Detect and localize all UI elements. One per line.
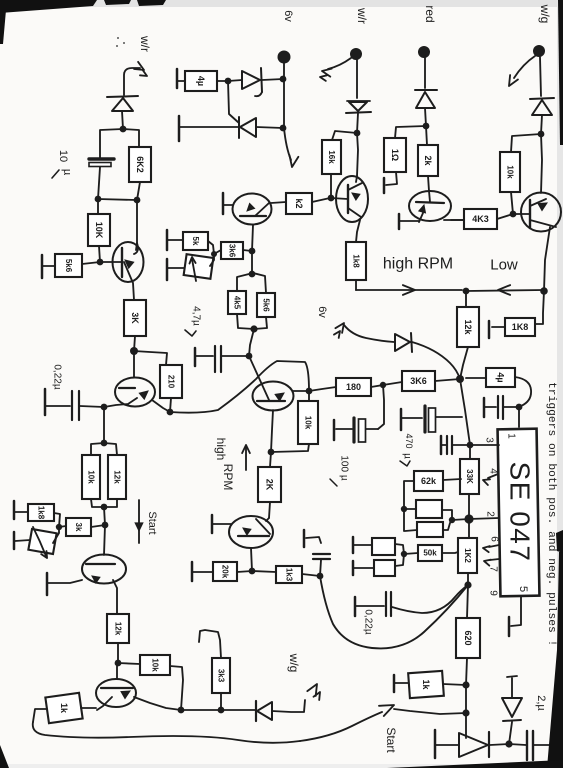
- svg-text:1K2: 1K2: [463, 548, 472, 563]
- svg-text:w/r: w/r: [355, 7, 369, 24]
- svg-text:1k3: 1k3: [285, 568, 294, 582]
- svg-text:10k: 10k: [506, 165, 515, 179]
- svg-text:12k: 12k: [463, 319, 473, 335]
- svg-text:3K6: 3K6: [410, 376, 427, 386]
- svg-text:Start: Start: [146, 511, 158, 534]
- svg-text:180: 180: [346, 382, 361, 392]
- svg-text:3k3: 3k3: [217, 669, 226, 683]
- svg-text:Start: Start: [384, 727, 398, 753]
- svg-text:1k: 1k: [421, 679, 431, 690]
- svg-text:1: 1: [506, 433, 517, 439]
- svg-text:5k6: 5k6: [64, 259, 73, 273]
- svg-text:1k8: 1k8: [37, 506, 46, 520]
- svg-text:210: 210: [167, 375, 176, 389]
- svg-text:0,22µ: 0,22µ: [363, 609, 374, 634]
- svg-text:high: high: [214, 438, 228, 461]
- svg-text:RPM: RPM: [221, 464, 235, 491]
- svg-text:620: 620: [463, 630, 473, 645]
- svg-text:w/r: w/r: [138, 35, 152, 52]
- svg-text:470: 470: [404, 433, 414, 448]
- svg-text:1k: 1k: [59, 703, 69, 714]
- svg-text:w/g: w/g: [287, 653, 301, 673]
- svg-text:2: 2: [485, 511, 496, 517]
- svg-text:4,7µ: 4,7µ: [191, 306, 202, 326]
- svg-text:9: 9: [488, 590, 499, 596]
- svg-text:µ: µ: [61, 169, 73, 176]
- svg-text:3k: 3k: [74, 523, 83, 532]
- svg-text:10k: 10k: [87, 470, 96, 484]
- svg-text:62k: 62k: [421, 476, 437, 486]
- svg-text:k2: k2: [294, 198, 304, 208]
- svg-text:6v: 6v: [316, 306, 328, 318]
- svg-text:33K: 33K: [465, 469, 474, 484]
- svg-text:6v: 6v: [282, 10, 294, 22]
- svg-text:12k: 12k: [113, 470, 122, 484]
- svg-text:10K: 10K: [94, 222, 104, 239]
- svg-text:µ: µ: [402, 453, 413, 459]
- svg-text:2,µ: 2,µ: [535, 695, 547, 711]
- svg-text:3k6: 3k6: [228, 244, 237, 258]
- svg-text:3K: 3K: [130, 312, 140, 324]
- svg-text:20k: 20k: [221, 565, 230, 579]
- svg-text:4µ: 4µ: [496, 372, 506, 382]
- svg-text:4k5: 4k5: [233, 296, 242, 310]
- svg-text:6: 6: [489, 536, 500, 542]
- svg-text:red: red: [423, 5, 437, 22]
- svg-text:high RPM: high RPM: [383, 256, 453, 273]
- svg-text:5k: 5k: [191, 237, 200, 246]
- svg-text:1K8: 1K8: [512, 322, 529, 332]
- svg-text:12k: 12k: [114, 622, 123, 636]
- svg-text:50k: 50k: [423, 549, 437, 558]
- svg-text:1Ω: 1Ω: [390, 149, 400, 161]
- svg-text:w/g: w/g: [538, 4, 552, 24]
- svg-text:2K: 2K: [265, 479, 275, 491]
- svg-text:10: 10: [57, 150, 69, 162]
- svg-text:100 µ: 100 µ: [339, 455, 350, 480]
- svg-text:0,22µ: 0,22µ: [52, 364, 63, 389]
- svg-text:triggers on both pos. and neg.: triggers on both pos. and neg. pulses !: [545, 382, 557, 646]
- svg-text:5: 5: [517, 586, 529, 592]
- svg-text:6K2: 6K2: [135, 156, 145, 173]
- svg-text:SE 047: SE 047: [505, 462, 536, 563]
- svg-text:3: 3: [484, 437, 495, 443]
- svg-text:5k6: 5k6: [262, 298, 271, 312]
- svg-text:4µ: 4µ: [196, 76, 206, 86]
- svg-text:16k: 16k: [327, 150, 336, 164]
- svg-text:2k: 2k: [423, 155, 433, 166]
- svg-text:4: 4: [488, 468, 499, 474]
- svg-text:10k: 10k: [151, 658, 160, 672]
- svg-text:7: 7: [488, 566, 499, 572]
- svg-text:4K3: 4K3: [472, 214, 489, 224]
- svg-text:1k8: 1k8: [352, 254, 361, 268]
- svg-text:10k: 10k: [304, 416, 313, 430]
- svg-text:Low: Low: [490, 257, 518, 274]
